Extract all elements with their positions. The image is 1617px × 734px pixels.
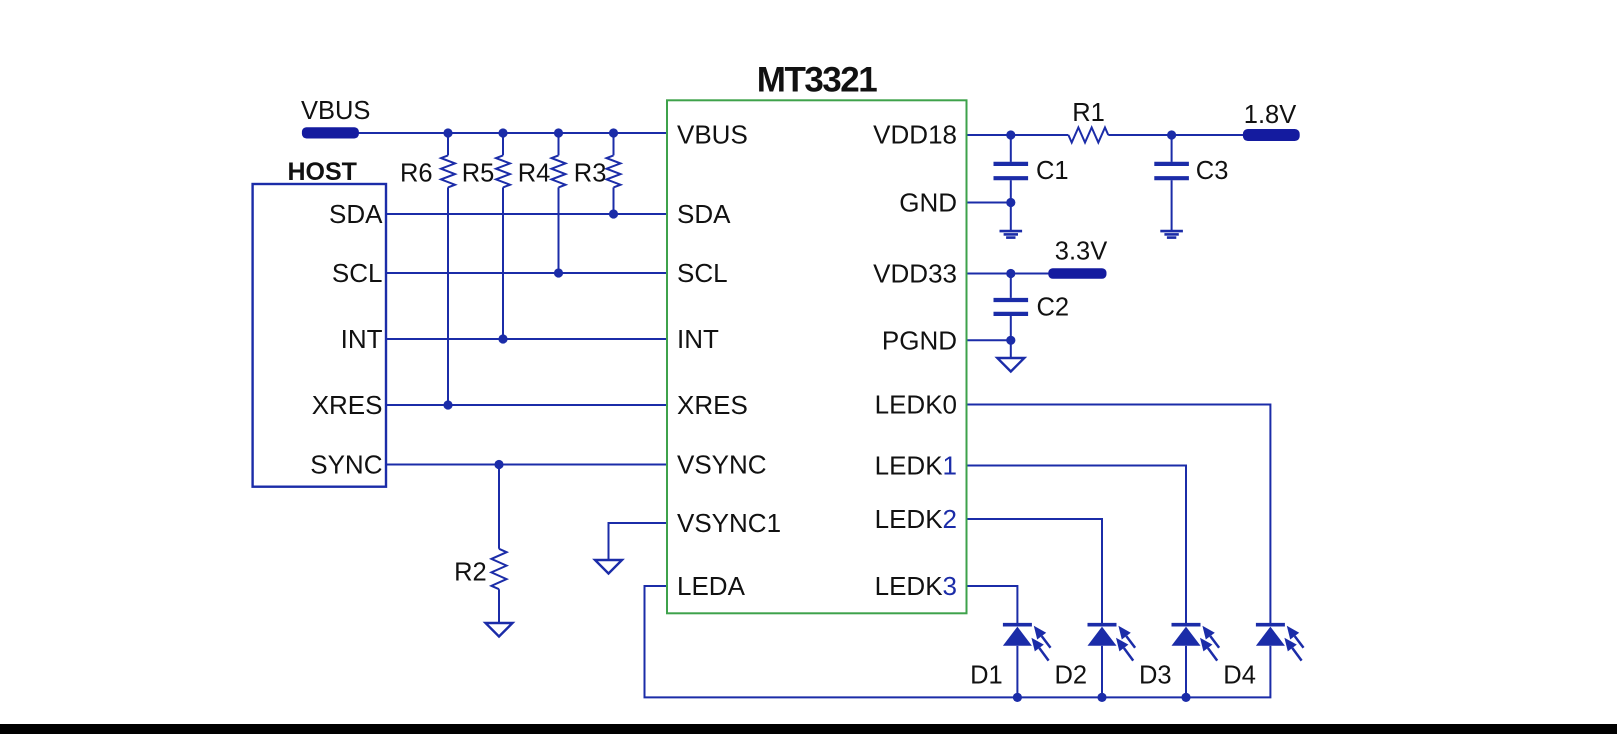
svg-text:R4: R4 [518, 160, 551, 188]
svg-text:SDA: SDA [329, 199, 383, 229]
svg-text:R6: R6 [400, 160, 433, 188]
svg-text:LEDK0: LEDK0 [875, 390, 957, 420]
svg-text:XRES: XRES [677, 390, 748, 420]
svg-text:SDA: SDA [677, 199, 731, 229]
svg-text:MT3321: MT3321 [757, 61, 877, 100]
svg-text:C3: C3 [1196, 157, 1229, 185]
svg-text:SYNC: SYNC [310, 450, 382, 480]
svg-text:R5: R5 [462, 160, 495, 188]
svg-text:VBUS: VBUS [677, 120, 748, 150]
svg-text:PGND: PGND [882, 325, 957, 355]
svg-text:VDD18: VDD18 [873, 120, 957, 150]
svg-text:HOST: HOST [288, 158, 357, 186]
svg-text:XRES: XRES [312, 390, 383, 420]
svg-text:D1: D1 [970, 662, 1003, 690]
svg-text:R2: R2 [454, 559, 487, 587]
svg-text:R1: R1 [1072, 99, 1105, 127]
svg-text:SCL: SCL [677, 258, 728, 288]
svg-text:D3: D3 [1139, 662, 1172, 690]
svg-text:VSYNC1: VSYNC1 [677, 508, 781, 538]
svg-text:C1: C1 [1036, 157, 1069, 185]
svg-text:GND: GND [899, 188, 957, 218]
svg-text:SCL: SCL [332, 258, 383, 288]
svg-text:VDD33: VDD33 [873, 259, 957, 289]
svg-text:INT: INT [677, 324, 719, 354]
svg-text:LEDK1: LEDK1 [875, 451, 957, 481]
svg-text:VSYNC: VSYNC [677, 450, 767, 480]
svg-text:VBUS: VBUS [301, 97, 370, 125]
svg-text:3.3V: 3.3V [1055, 238, 1107, 266]
svg-text:R3: R3 [574, 160, 607, 188]
svg-text:D2: D2 [1054, 662, 1087, 690]
svg-text:INT: INT [341, 324, 383, 354]
svg-text:1.8V: 1.8V [1244, 101, 1296, 129]
svg-text:LEDK3: LEDK3 [875, 571, 957, 601]
svg-text:C2: C2 [1037, 294, 1070, 322]
svg-text:LEDK2: LEDK2 [875, 504, 957, 534]
svg-text:LEDA: LEDA [677, 571, 746, 601]
svg-text:D4: D4 [1223, 662, 1256, 690]
